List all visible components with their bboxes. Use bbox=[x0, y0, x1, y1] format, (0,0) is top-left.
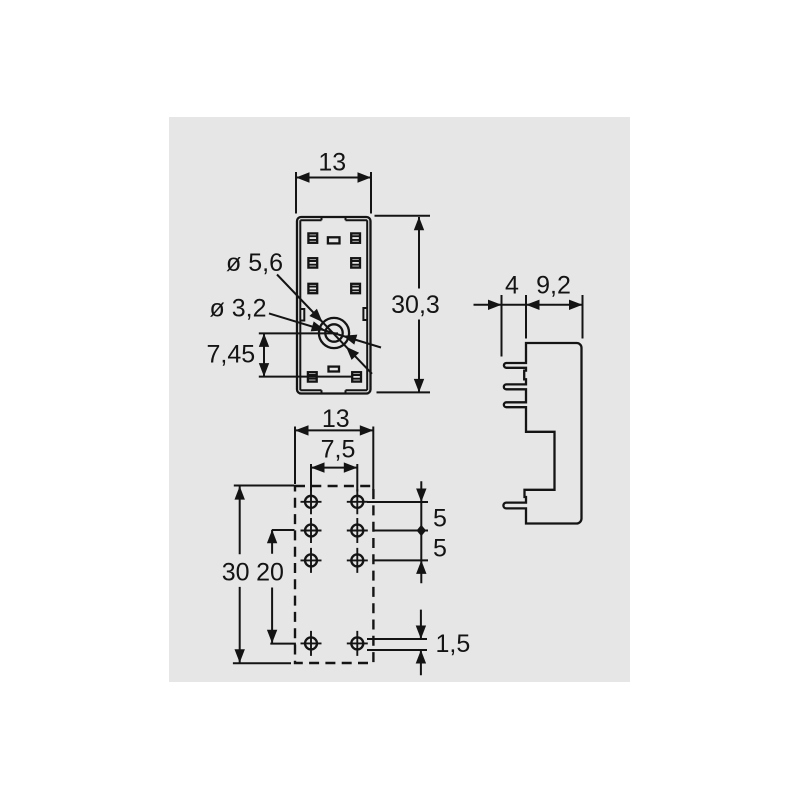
dimension 7,45 line bbox=[263, 333, 265, 376]
dimension 7,5 arrowheads bbox=[311, 462, 325, 472]
dimension 30,3 line bbox=[418, 217, 420, 392]
drill hole r3c1 bbox=[301, 548, 322, 573]
drawing background panel bbox=[169, 117, 630, 682]
contact slot row1 left bbox=[308, 233, 318, 242]
contact slot row3 left bbox=[308, 284, 318, 293]
dimension 7,45 arrowheads bbox=[259, 333, 269, 347]
svg-text:30,3: 30,3 bbox=[391, 291, 440, 319]
drill hole r4c1 bbox=[301, 631, 322, 656]
dimension 9,2 arrowhead right bbox=[569, 300, 583, 310]
contact slot row2 right bbox=[351, 258, 361, 267]
top center rectangular slot bbox=[328, 237, 340, 243]
dimension 7,5 extension lines bbox=[311, 464, 357, 492]
drill hole r2c1 bbox=[301, 518, 322, 543]
drill hole r2c2 bbox=[347, 518, 368, 543]
contact slot row2 left bbox=[308, 258, 318, 267]
dimension 13 (drill) arrowheads bbox=[295, 425, 309, 435]
dimension 13 line bbox=[296, 177, 371, 179]
svg-text:13: 13 bbox=[322, 405, 350, 433]
svg-text:1,5: 1,5 bbox=[436, 630, 471, 658]
dimension 1,5 line bbox=[420, 610, 422, 676]
dimension 30 line bbox=[239, 486, 241, 663]
dimension 5/5 line bbox=[420, 481, 422, 583]
dimension 5/5 extension lines bbox=[367, 502, 428, 560]
bottom contact slot left bbox=[308, 372, 318, 381]
svg-text:5: 5 bbox=[433, 504, 447, 532]
dimension 30 extension lines bbox=[233, 486, 294, 664]
top view right polarizing notch bbox=[363, 308, 367, 320]
dimension 20 arrowheads bbox=[267, 530, 277, 544]
dimension 13 (top view width) extension lines bbox=[296, 172, 371, 214]
dimension 4/9,2 extension lines bbox=[502, 295, 583, 357]
drilling plan dashed outline bbox=[295, 486, 373, 663]
dimension 4/9,2 line bbox=[474, 304, 583, 306]
drill hole r3c2 bbox=[347, 548, 368, 573]
dimension 20 line bbox=[271, 530, 273, 643]
center hole outer circle bbox=[319, 318, 349, 348]
dimension 1,5 extension lines bbox=[367, 639, 427, 650]
dimension 4 arrowhead (outside left) bbox=[488, 300, 502, 310]
side view body outline bbox=[503, 343, 581, 524]
bottom center rectangular slot bbox=[329, 367, 340, 372]
dimension 30,3 extension lines bbox=[375, 216, 431, 393]
svg-text:4: 4 bbox=[505, 272, 519, 300]
dimension 5/5 diamond at r2 bbox=[417, 525, 426, 536]
top view left polarizing notch bbox=[300, 309, 304, 321]
dimension 1,5 arrowheads bbox=[416, 626, 426, 640]
svg-text:7,45: 7,45 bbox=[207, 341, 256, 369]
callout ø 5,6 leader line bbox=[277, 275, 372, 374]
svg-text:30: 30 bbox=[222, 559, 250, 587]
dimension 20 extension lines bbox=[270, 530, 296, 644]
top view inner wall line bbox=[300, 217, 367, 395]
dimension 5/5 arrowhead up at r3 bbox=[416, 560, 426, 574]
dimension 13 arrowheads bbox=[296, 172, 310, 182]
dimension 5/5 arrowhead down at r1 bbox=[416, 489, 426, 503]
callout ø 3,2 leader line bbox=[269, 313, 381, 347]
drill hole r4c2 bbox=[347, 631, 368, 656]
dimension 7,5 line bbox=[311, 467, 357, 469]
contact slot row1 right bbox=[351, 233, 361, 242]
dimension 7,45 extension lines bbox=[259, 333, 352, 376]
svg-text:20: 20 bbox=[256, 559, 284, 587]
dimension 30 arrowheads bbox=[235, 486, 245, 500]
top view socket outline bbox=[297, 217, 371, 394]
dimension 13 (drill) line bbox=[295, 429, 373, 431]
svg-text:7,5: 7,5 bbox=[321, 436, 356, 464]
bottom contact slot right bbox=[352, 372, 362, 381]
svg-text:13: 13 bbox=[318, 149, 346, 177]
svg-text:5: 5 bbox=[433, 534, 447, 562]
dimension 9,2 arrowhead left bbox=[526, 300, 540, 310]
callout ø 3,2 arrowheads bbox=[311, 321, 325, 331]
svg-text:ø 3,2: ø 3,2 bbox=[210, 295, 267, 323]
drill hole r1c1 bbox=[301, 489, 322, 514]
contact slot row3 right bbox=[351, 284, 361, 293]
center hole inner circle bbox=[325, 324, 342, 341]
dimension 30,3 arrowheads bbox=[414, 217, 424, 231]
callout ø 5,6 arrowheads bbox=[309, 309, 322, 322]
drill hole r1c2 bbox=[347, 489, 368, 514]
dimension 13 (drill) extension lines bbox=[295, 427, 373, 491]
svg-text:ø 5,6: ø 5,6 bbox=[226, 249, 283, 277]
svg-text:9,2: 9,2 bbox=[536, 272, 571, 300]
